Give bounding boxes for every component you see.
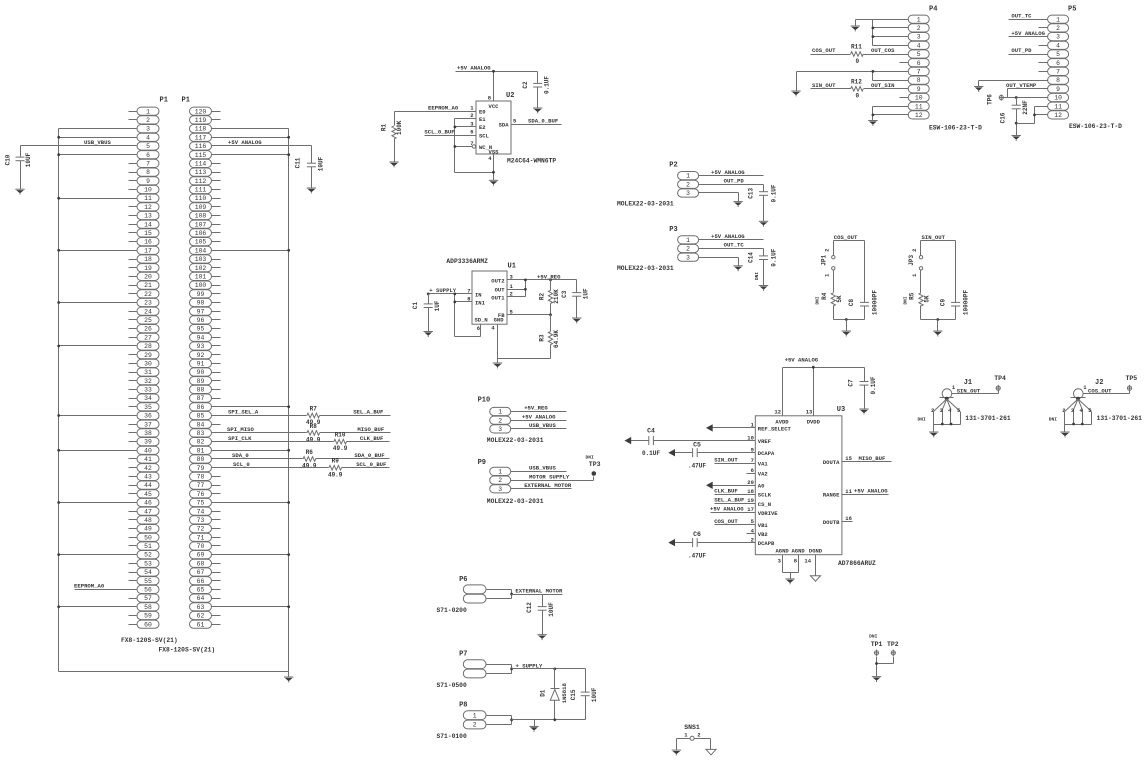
net COS_OUT wire from J2 pin 1 (1084, 387, 1130, 394)
svg-text:P4: P4 (929, 5, 937, 13)
svg-text:P6: P6 (459, 576, 467, 584)
svg-text:VB1: VB1 (758, 522, 769, 529)
svg-text:61: 61 (197, 621, 205, 628)
capacitor C14 0.1UF (747, 248, 777, 285)
svg-text:2: 2 (146, 117, 150, 124)
svg-text:COS_OUT: COS_OUT (812, 47, 836, 54)
net +5V ANALOG wire from P1 pin 116 (212, 139, 312, 146)
svg-text:118: 118 (195, 126, 207, 133)
svg-text:0.1UF: 0.1UF (770, 184, 777, 202)
ground (P2 pin 3) (733, 202, 742, 207)
svg-text:108: 108 (195, 213, 207, 220)
svg-text:C13: C13 (747, 188, 754, 199)
svg-text:77: 77 (197, 482, 205, 489)
svg-text:1: 1 (823, 273, 830, 277)
svg-text:DNI: DNI (869, 634, 878, 640)
svg-text:7: 7 (470, 140, 473, 147)
coax jack J1 131-3701-261 (918, 379, 1011, 433)
svg-text:3: 3 (686, 190, 690, 197)
svg-text:32: 32 (144, 378, 152, 385)
svg-text:22: 22 (144, 291, 152, 298)
net OUT_PD wire to P2 pin 2 (699, 178, 764, 185)
svg-text:RANGE: RANGE (823, 492, 840, 499)
svg-text:90: 90 (197, 369, 205, 376)
capacitor C3 1UF (561, 280, 590, 319)
net +5V ANALOG wire from U3 pin 11 RANGE (823, 488, 889, 499)
svg-text:EEPROM_A0: EEPROM_A0 (74, 583, 105, 590)
svg-text:11: 11 (845, 488, 852, 495)
svg-text:114: 114 (195, 161, 207, 168)
P8 pin tie wires (487, 716, 514, 725)
svg-text:131-3701-261: 131-3701-261 (1097, 415, 1143, 422)
test point TP4 (994, 375, 1006, 391)
svg-text:ADP3336ARMZ: ADP3336ARMZ (446, 258, 488, 265)
svg-text:23: 23 (144, 300, 152, 307)
svg-text:10UF: 10UF (25, 152, 32, 167)
svg-text:84: 84 (197, 421, 205, 428)
svg-text:76: 76 (197, 491, 205, 498)
svg-text:C12: C12 (526, 602, 533, 613)
svg-text:EXTERNAL MOTOR: EXTERNAL MOTOR (515, 588, 563, 595)
regulator U1 ADP3336ARMZ body (446, 258, 516, 324)
svg-text:P7: P7 (459, 651, 467, 659)
svg-text:4: 4 (1056, 42, 1060, 49)
svg-text:5: 5 (146, 143, 150, 150)
svg-text:9: 9 (751, 446, 754, 453)
svg-text:107: 107 (195, 221, 207, 228)
svg-text:USB_VBUS: USB_VBUS (84, 139, 111, 146)
capacitor C13 0.1UF (747, 184, 777, 221)
svg-text:CLK_BUF: CLK_BUF (714, 488, 738, 495)
svg-text:R10: R10 (335, 432, 346, 439)
svg-text:17: 17 (144, 247, 152, 254)
net EEPROM_A0 wire to U2 pin 1 E0 (395, 104, 477, 111)
svg-text:USB_VBUS: USB_VBUS (529, 422, 556, 429)
svg-text:TP6: TP6 (986, 94, 993, 105)
svg-text:R8: R8 (310, 423, 318, 430)
svg-text:C5: C5 (693, 441, 701, 448)
svg-text:+5V ANALOG: +5V ANALOG (457, 65, 491, 72)
net MOTOR SUPPLY wire from P9 pin 2 (511, 473, 594, 480)
capacitor C4 0.1UF in series with U3 pin 10 VREF (625, 428, 772, 458)
svg-text:OUT_PD: OUT_PD (1011, 47, 1032, 54)
svg-text:SEL_A_BUF: SEL_A_BUF (353, 409, 384, 416)
svg-text:DOUTA: DOUTA (823, 459, 840, 466)
svg-text:8: 8 (146, 169, 150, 176)
svg-text:SCL_0_BUF: SCL_0_BUF (356, 461, 387, 468)
svg-text:83: 83 (197, 430, 205, 437)
svg-text:97: 97 (197, 308, 205, 315)
svg-text:R1: R1 (380, 124, 387, 132)
svg-text:3: 3 (498, 486, 502, 493)
net COS_OUT wire to U3 pin 5 VB1 (714, 518, 768, 529)
svg-text:42: 42 (144, 465, 152, 472)
svg-text:1: 1 (911, 273, 918, 277)
test point TP6 (986, 94, 1003, 105)
svg-text:7: 7 (146, 161, 150, 168)
svg-text:5: 5 (513, 118, 517, 125)
svg-text:27: 27 (144, 334, 152, 341)
svg-text:91: 91 (197, 361, 205, 368)
svg-text:94: 94 (197, 334, 205, 341)
svg-text:9: 9 (1056, 86, 1060, 93)
U2 pin 4 VSS ground wire (488, 155, 495, 181)
resistor R6 49.9 with net SDA_0 to SDA_0_BUF (212, 449, 390, 470)
svg-text:78: 78 (197, 474, 205, 481)
svg-text:+5V_REG: +5V_REG (524, 405, 548, 412)
svg-text:R11: R11 (851, 44, 862, 51)
svg-text:30: 30 (144, 361, 152, 368)
svg-text:AGND: AGND (791, 548, 805, 555)
capacitor C8 10000PF (848, 241, 878, 320)
svg-text:49.9: 49.9 (306, 437, 321, 444)
svg-text:35: 35 (144, 404, 152, 411)
svg-text:102: 102 (195, 265, 207, 272)
svg-text:OUT_COS: OUT_COS (871, 47, 895, 54)
svg-text:71: 71 (197, 534, 205, 541)
coax jack J2 131-3701-261 (1049, 379, 1142, 433)
svg-text:EEPROM_A0: EEPROM_A0 (428, 104, 459, 111)
svg-text:SD_N: SD_N (475, 317, 488, 324)
svg-text:12: 12 (915, 112, 923, 119)
svg-text:1: 1 (146, 108, 150, 115)
svg-text:R9: R9 (332, 458, 340, 465)
svg-text:+5V ANALOG: +5V ANALOG (785, 357, 819, 364)
svg-text:75: 75 (197, 500, 205, 507)
svg-text:OUT_VTEMP: OUT_VTEMP (1006, 82, 1037, 89)
svg-text:DCAPA: DCAPA (758, 450, 775, 457)
svg-text:68: 68 (197, 560, 205, 567)
svg-text:2: 2 (470, 112, 473, 119)
svg-text:5: 5 (1056, 51, 1060, 58)
svg-text:+5V ANALOG: +5V ANALOG (710, 506, 744, 513)
svg-text:JP1: JP1 (821, 255, 828, 266)
svg-text:P5: P5 (1068, 5, 1076, 13)
svg-text:18: 18 (144, 256, 152, 263)
svg-text:TP4: TP4 (994, 375, 1006, 382)
test point TP5 (1126, 375, 1138, 391)
resistor R1 100K (380, 112, 403, 163)
jumper JP3 (908, 249, 923, 278)
svg-text:45: 45 (144, 491, 152, 498)
ground (C12) (537, 635, 546, 640)
svg-text:10UF: 10UF (548, 602, 555, 617)
net OUT_VTEMP wire to P5 pin 9 with test point TP6 (1004, 82, 1039, 98)
P5 pin 8 ground wire (979, 81, 1039, 87)
ground (C1) (424, 332, 433, 337)
svg-text:C6: C6 (693, 531, 701, 538)
capacitor C16 22NF (1000, 96, 1029, 135)
resistor R3 64.9K (538, 315, 560, 359)
svg-text:2: 2 (686, 181, 690, 188)
svg-text:38: 38 (144, 430, 152, 437)
svg-text:+5V ANALOG: +5V ANALOG (711, 233, 745, 240)
ADC U3 AD7866ARUZ body (755, 406, 876, 567)
svg-text:24: 24 (144, 308, 152, 315)
svg-text:OUT1: OUT1 (491, 294, 505, 301)
net + SUPPLY wire to U1 pin 7 IN (427, 287, 473, 295)
svg-text:43: 43 (144, 474, 152, 481)
svg-text:DNI: DNI (918, 416, 927, 422)
ground (C16) (1012, 136, 1021, 141)
svg-text:P3: P3 (669, 226, 677, 234)
svg-text:10: 10 (144, 187, 152, 194)
svg-text:8: 8 (917, 77, 921, 84)
ground (P4 pins 7-8) (791, 91, 800, 96)
svg-text:12: 12 (144, 204, 152, 211)
net MISO_BUF wire from U3 pin 15 DOUTA (823, 455, 892, 466)
svg-text:7: 7 (467, 287, 470, 294)
P4 pins 11,12 ground tie wire (872, 107, 900, 121)
net USB_VBUS wire from P9 pin 1 (511, 465, 567, 472)
connector P6 S71-0200 (437, 576, 487, 614)
ground (TP1/TP2) (872, 677, 881, 682)
ground (SNS1 pin 1) (672, 750, 681, 755)
net SIN_OUT wire from J1 pin 1 (952, 387, 999, 394)
svg-text:USB_VBUS: USB_VBUS (529, 465, 556, 472)
capacitor C7 0.1UF (847, 368, 877, 409)
svg-text:R4: R4 (821, 292, 828, 300)
svg-text:6: 6 (146, 152, 150, 159)
svg-text:TP1: TP1 (871, 641, 883, 648)
resistor R12 0 on net SIN_OUT to OUT_SIN (P4 pin 9) (811, 79, 900, 100)
svg-text:R12: R12 (851, 79, 862, 86)
svg-text:DNI: DNI (1049, 416, 1058, 422)
svg-text:12: 12 (1054, 112, 1062, 119)
ground (U3 AGND) (785, 579, 794, 584)
svg-text:A0: A0 (758, 483, 765, 490)
svg-text:15: 15 (845, 455, 852, 462)
svg-text:31: 31 (144, 369, 152, 376)
P6 pin tie wires (487, 590, 514, 599)
svg-text:109: 109 (195, 204, 207, 211)
U3 pin 4 VB2 stub wire (747, 527, 768, 538)
U3 pin 20 A0 input wire (706, 479, 764, 490)
ground (J1 shield) (929, 432, 938, 437)
svg-text:11: 11 (915, 103, 923, 110)
svg-text:2: 2 (1062, 407, 1065, 414)
svg-text:73: 73 (197, 517, 205, 524)
svg-text:14: 14 (144, 221, 152, 228)
svg-text:COS_OUT: COS_OUT (1088, 387, 1112, 394)
svg-text:TP3: TP3 (589, 461, 601, 468)
P4 pins 1-4 ground tie wire (856, 20, 900, 46)
svg-text:64.9K: 64.9K (553, 330, 560, 348)
svg-text:2: 2 (473, 722, 477, 729)
svg-text:SCL_0_BUF: SCL_0_BUF (424, 128, 455, 135)
connector P4 ESW-106-23-T-D (900, 5, 983, 131)
svg-text:1: 1 (684, 731, 688, 738)
svg-text:C9: C9 (939, 299, 946, 307)
svg-text:49.9: 49.9 (328, 471, 343, 478)
svg-text:50: 50 (144, 534, 152, 541)
svg-text:47: 47 (144, 508, 152, 515)
U2 pin 8 VCC wire (488, 72, 494, 102)
svg-text:10UF: 10UF (591, 687, 598, 702)
net SDA_0_BUF wire from U2 pin 5 SDA (511, 118, 562, 125)
svg-text:2: 2 (911, 249, 918, 252)
net SEL_A_BUF wire to U3 pin 19 CS_N (714, 497, 771, 508)
svg-text:10000PF: 10000PF (962, 290, 969, 316)
ground (C3) (572, 318, 581, 323)
svg-text:1UF: 1UF (583, 288, 590, 299)
svg-text:22NF: 22NF (1022, 100, 1029, 115)
svg-text:3: 3 (146, 126, 150, 133)
svg-text:P1: P1 (160, 97, 168, 105)
svg-text:U2: U2 (506, 92, 514, 100)
svg-text:2: 2 (823, 249, 830, 252)
svg-text:MOLEX22-03-2031: MOLEX22-03-2031 (487, 498, 544, 505)
ground (C2) (533, 108, 542, 113)
svg-text:2: 2 (697, 731, 700, 738)
ground (P4 pins 11-12) (868, 121, 877, 126)
svg-text:OUT_SIN: OUT_SIN (871, 82, 895, 89)
svg-text:39: 39 (144, 439, 152, 446)
U1 pin 5 FB wire (507, 308, 552, 316)
ground (U2 VSS) (489, 180, 498, 185)
sense jumper SNS1 (677, 724, 711, 751)
diode D1 1N5818 (539, 668, 568, 720)
svg-text:E0: E0 (479, 109, 486, 116)
svg-text:DNI: DNI (816, 296, 821, 304)
svg-text:36: 36 (144, 413, 152, 420)
svg-text:0: 0 (856, 58, 860, 65)
P7/P8 bottom rail wire (512, 718, 586, 726)
svg-text:8: 8 (1056, 77, 1060, 84)
svg-text:2: 2 (498, 477, 502, 484)
svg-text:1: 1 (1083, 384, 1087, 391)
net OUT_PD wire to P5 pin 5 (1009, 47, 1039, 54)
svg-text:R3: R3 (538, 334, 545, 342)
svg-text:+5V ANALOG: +5V ANALOG (711, 169, 745, 176)
svg-text:J2: J2 (1095, 379, 1103, 387)
svg-text:IN1: IN1 (475, 299, 486, 306)
svg-text:65: 65 (197, 587, 205, 594)
svg-text:GND: GND (494, 317, 505, 324)
connector P3 MOLEX22-03-2031 (617, 226, 699, 272)
svg-text:29: 29 (144, 352, 152, 359)
svg-text:J1: J1 (964, 379, 972, 387)
svg-text:E1: E1 (479, 116, 486, 123)
svg-text:SIN_OUT: SIN_OUT (957, 387, 981, 394)
svg-text:S71-0100: S71-0100 (437, 733, 467, 740)
svg-text:54: 54 (144, 569, 152, 576)
ground (P4 pins 1-4) (851, 26, 860, 31)
ground (P1 buses) (284, 677, 293, 682)
net +5V_REG wire from P10 pin 1 (511, 405, 567, 412)
jumper JP1 (821, 249, 836, 278)
svg-text:3: 3 (778, 558, 782, 565)
svg-text:OUT2: OUT2 (491, 277, 504, 284)
U3 pin 13 DVDD wire (806, 366, 815, 416)
svg-text:ESW-106-23-T-D: ESW-106-23-T-D (929, 125, 982, 132)
svg-text:111: 111 (195, 187, 207, 194)
svg-text:2: 2 (498, 417, 502, 424)
resistor R8 49.9 with net SPI_MISO to MISO_BUF (212, 423, 391, 444)
ground (P3 pin 3) (733, 266, 742, 271)
svg-text:16: 16 (144, 239, 152, 246)
svg-text:MOTOR SUPPLY: MOTOR SUPPLY (529, 473, 570, 480)
svg-text:4: 4 (491, 325, 495, 332)
svg-text:SDA: SDA (499, 122, 510, 129)
svg-text:88: 88 (197, 387, 205, 394)
P2 pin 3 ground wire (699, 193, 739, 202)
net + SUPPLY wire from P7 (512, 662, 586, 669)
svg-text:1: 1 (686, 237, 690, 244)
svg-text:80: 80 (197, 456, 205, 463)
ground (R1) (389, 162, 398, 167)
net COS_OUT wire above JP1 (834, 234, 865, 255)
svg-text:11: 11 (1054, 103, 1062, 110)
resistor R11 0 on net COS_OUT to OUT_COS (P4 pin 5) (811, 44, 900, 65)
U1 output pins 3,1,2 tie wires (507, 273, 577, 297)
capacitor C9 10000PF (939, 241, 969, 320)
net SIN_OUT wire to U3 pin 7 VA1 (714, 457, 768, 468)
svg-text:13: 13 (806, 409, 813, 416)
net EXTERNAL MOTOR wire from P9 pin 3 (511, 482, 572, 489)
svg-text:69: 69 (197, 552, 205, 559)
U3 pin 14 DGND wire (804, 555, 815, 576)
net OUT_TC wire to P5 pin 1 (1009, 12, 1039, 19)
svg-text:MISO_BUF: MISO_BUF (859, 455, 886, 462)
ground (J2 shield) (1060, 432, 1069, 437)
svg-text:C3: C3 (561, 290, 568, 298)
svg-text:DNI: DNI (755, 272, 760, 280)
svg-text:1: 1 (498, 409, 502, 416)
P1 right ground bus wire (212, 129, 291, 672)
svg-text:46: 46 (144, 500, 152, 507)
svg-text:110: 110 (195, 195, 207, 202)
svg-text:14: 14 (804, 558, 811, 565)
svg-text:P9: P9 (478, 459, 486, 467)
svg-text:2: 2 (931, 407, 934, 414)
svg-text:104: 104 (195, 247, 207, 254)
svg-text:2: 2 (1056, 25, 1060, 32)
svg-text:117: 117 (195, 134, 207, 141)
svg-text:COS_OUT: COS_OUT (714, 518, 738, 525)
net USB_VBUS wire from P10 pin 3 (511, 422, 567, 429)
ground (C11) (307, 188, 316, 193)
svg-text:13: 13 (144, 213, 152, 220)
svg-text:S71-0200: S71-0200 (437, 607, 467, 614)
svg-text:44: 44 (144, 482, 152, 489)
net CLK_BUF wire to U3 pin 18 SCLK (714, 488, 772, 499)
svg-text:41: 41 (144, 456, 152, 463)
junction U2 VCC rail (492, 70, 495, 73)
svg-text:+5V ANALOG: +5V ANALOG (1011, 30, 1045, 37)
net SIN_OUT wire above JP3 (921, 234, 956, 255)
svg-text:63: 63 (197, 604, 205, 611)
svg-text:119: 119 (195, 117, 207, 124)
connector P9 MOLEX22-03-2031 (478, 459, 544, 505)
svg-text:51: 51 (144, 543, 152, 550)
svg-text:+ SUPPLY: + SUPPLY (429, 287, 456, 294)
svg-text:0.1UF: 0.1UF (544, 76, 551, 94)
JP3 bottom tie wire (921, 318, 956, 330)
svg-text:.47UF: .47UF (688, 552, 706, 559)
svg-text:28: 28 (144, 343, 152, 350)
svg-text:SCLK: SCLK (758, 492, 772, 499)
svg-text:115: 115 (195, 152, 207, 159)
svg-text:+5V_REG: +5V_REG (537, 273, 561, 280)
svg-text:C14: C14 (747, 252, 754, 263)
U3 pin 1 REF_SELECT input wire (706, 422, 792, 433)
svg-text:116: 116 (195, 143, 207, 150)
ground (P5 pin 8) (974, 87, 983, 92)
net +5V ANALOG rail above U2 (456, 65, 538, 72)
svg-text:4: 4 (948, 407, 952, 414)
svg-text:3: 3 (1056, 34, 1060, 41)
